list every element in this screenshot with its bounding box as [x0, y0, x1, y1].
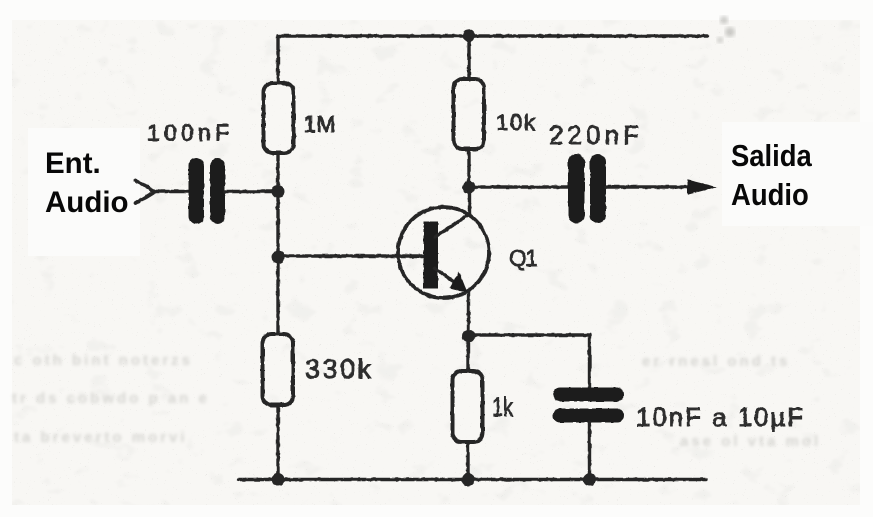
node input junction	[272, 185, 285, 198]
wire R1 bottom to divider	[276, 153, 279, 334]
capacitor C1 100nF left plate	[189, 158, 205, 224]
node ground R3 junction	[272, 473, 285, 486]
wire 10k top lead	[467, 36, 470, 79]
wire R2 bottom to collector node	[467, 149, 470, 187]
svg-text:10k: 10k	[496, 110, 536, 135]
node collector junction	[463, 181, 476, 194]
wire C1 to base node	[225, 190, 278, 193]
wire collector node to C2	[469, 185, 569, 188]
node ground R4 junction	[462, 473, 475, 486]
ghost text row right 1	[642, 353, 790, 370]
node top rail / 10k junction	[463, 30, 475, 42]
svg-text:1M: 1M	[304, 111, 336, 137]
capacitor C2 220nF right plate	[590, 154, 606, 223]
transistor Q1 collector stroke	[435, 214, 470, 237]
capacitor C3 top plate	[553, 388, 624, 402]
transistor Q1 emitter arrowhead	[450, 272, 468, 293]
wire input to C1	[155, 190, 189, 193]
svg-text:1k: 1k	[492, 392, 514, 422]
capacitor C2 220nF left plate	[568, 154, 585, 223]
svg-text:220nF: 220nF	[549, 120, 639, 150]
capacitor C3 bottom plate	[553, 409, 624, 423]
svg-text:Q1: Q1	[509, 245, 538, 271]
transistor Q1 emitter stroke	[435, 268, 458, 284]
transistor Q1 body circle	[398, 207, 489, 298]
wire emitter node to R4	[466, 336, 469, 371]
input arrow chevron	[136, 181, 156, 204]
wire base lead	[278, 254, 424, 257]
ghost text row left 3	[14, 429, 188, 446]
ghost text row right 2	[680, 433, 821, 450]
svg-text:330k: 330k	[305, 354, 372, 384]
wire R3 bottom lead	[276, 405, 279, 480]
label output Salida Audio	[731, 137, 812, 214]
resistor R3 330k	[263, 334, 294, 405]
label input Ent. Audio	[45, 145, 129, 222]
ghost text row left 2	[12, 390, 210, 407]
node emitter junction	[462, 330, 475, 343]
resistor R1 1M	[264, 83, 294, 153]
ghost text row left 1	[14, 352, 193, 369]
resistor R2 10k	[454, 79, 485, 149]
wire R4 bottom lead	[466, 442, 469, 480]
wire C2 to output arrow	[606, 185, 692, 188]
node base tap junction	[272, 251, 285, 264]
wire C3 bottom lead	[588, 422, 591, 480]
svg-text:100nF: 100nF	[147, 120, 229, 146]
capacitor C1 100nF right plate	[210, 158, 225, 224]
wire collector lead	[468, 187, 471, 214]
wire bottom ground rail	[239, 478, 706, 481]
transistor Q1 base bar	[424, 222, 439, 289]
wire top supply rail	[278, 36, 707, 83]
wire emitter node to bypass cap	[469, 335, 590, 388]
svg-text:10nF a 10µF: 10nF a 10µF	[636, 402, 803, 432]
resistor R4 1k	[453, 371, 483, 442]
wire emitter lead down	[467, 292, 470, 336]
node ground C3 junction	[583, 473, 596, 486]
output arrowhead	[688, 180, 718, 195]
